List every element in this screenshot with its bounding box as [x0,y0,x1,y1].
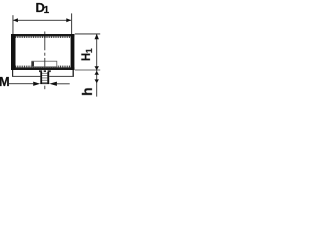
svg-text:1: 1 [44,5,50,16]
svg-text:M: M [0,74,10,89]
svg-text:1: 1 [84,48,94,53]
svg-text:h: h [80,87,95,95]
